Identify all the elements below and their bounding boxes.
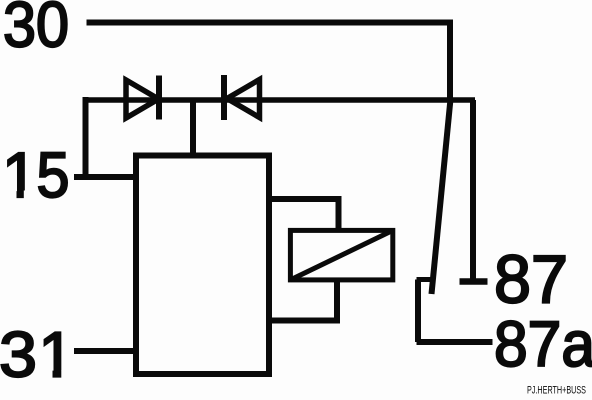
diode D1	[126, 76, 159, 120]
svg-text:87a: 87a	[494, 308, 592, 380]
svg-text:3: 3	[0, 319, 37, 391]
terminal label 15	[2, 139, 70, 211]
diode D2	[224, 75, 260, 120]
wire diode row	[86, 97, 475, 103]
svg-text:30: 30	[3, 0, 69, 61]
wire 87a branch	[417, 280, 493, 343]
wire 87 branch	[470, 100, 476, 279]
relay box	[136, 156, 269, 375]
coil K1	[290, 230, 392, 280]
wire from 30 to switch	[87, 23, 451, 101]
armature pivot foot	[417, 277, 432, 282]
wire coil top stub	[269, 199, 339, 230]
svg-text:1: 1	[2, 139, 38, 211]
wire left branch down to 15	[83, 97, 89, 177]
switch armature	[432, 99, 451, 294]
wire coil bottom stub	[269, 282, 337, 321]
svg-text:5: 5	[37, 139, 70, 211]
contact 87 bar	[460, 278, 488, 285]
wire center tap to relay box	[190, 100, 196, 157]
wire 15 to relay box	[74, 174, 137, 180]
wire 31 to relay box	[74, 348, 139, 354]
svg-text:87: 87	[494, 242, 568, 318]
terminal label 31	[0, 319, 76, 391]
svg-text:PJ.HERTH+BUSS: PJ.HERTH+BUSS	[527, 385, 586, 397]
